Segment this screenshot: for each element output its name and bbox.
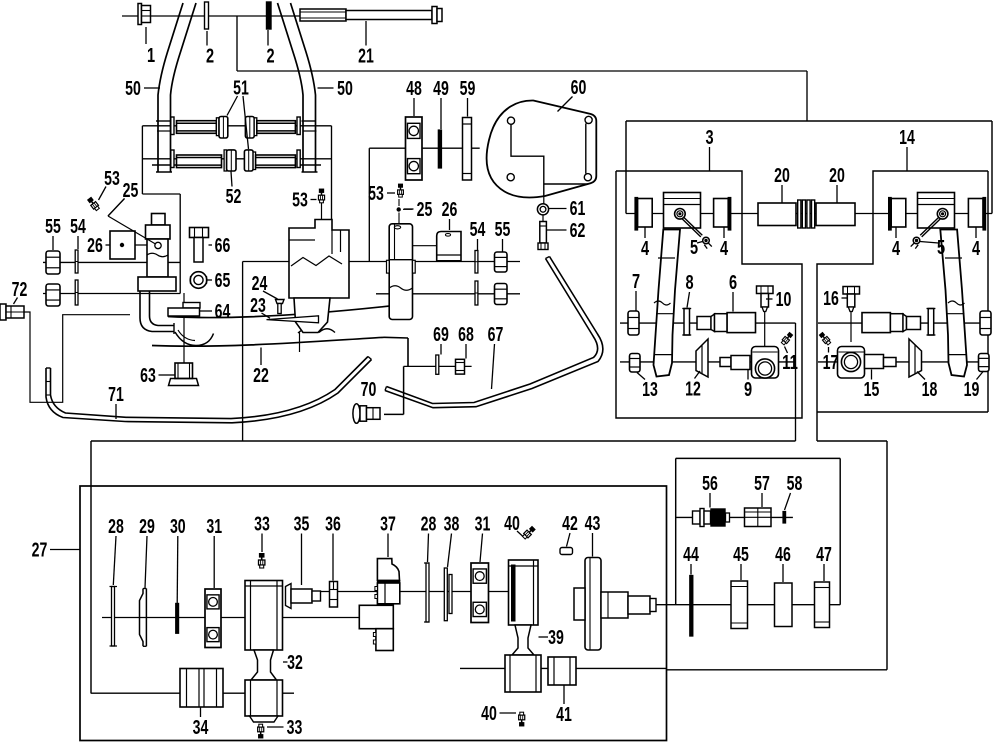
svg-text:37: 37: [380, 514, 396, 536]
svg-text:68: 68: [458, 324, 474, 346]
svg-text:15: 15: [864, 379, 880, 401]
svg-text:58: 58: [787, 473, 803, 495]
svg-text:55: 55: [45, 216, 61, 238]
svg-text:13: 13: [642, 379, 658, 401]
svg-text:61: 61: [570, 198, 586, 220]
svg-text:31: 31: [206, 516, 222, 538]
svg-text:12: 12: [685, 379, 701, 401]
svg-text:67: 67: [488, 324, 504, 346]
svg-text:18: 18: [922, 379, 938, 401]
svg-text:66: 66: [215, 235, 231, 257]
svg-text:53: 53: [292, 190, 308, 212]
svg-text:48: 48: [406, 78, 422, 100]
svg-text:38: 38: [444, 514, 460, 536]
svg-text:26: 26: [87, 235, 103, 257]
svg-text:28: 28: [108, 516, 124, 538]
svg-text:20: 20: [774, 165, 790, 187]
svg-text:33: 33: [254, 514, 270, 536]
svg-text:19: 19: [964, 379, 980, 401]
svg-text:41: 41: [556, 704, 572, 726]
svg-text:3: 3: [705, 127, 713, 149]
svg-text:65: 65: [215, 270, 231, 292]
svg-text:4: 4: [720, 238, 729, 260]
svg-text:5: 5: [937, 237, 945, 259]
svg-text:2: 2: [266, 46, 274, 68]
svg-text:21: 21: [358, 46, 374, 68]
svg-text:51: 51: [233, 78, 249, 100]
svg-text:54: 54: [470, 219, 486, 241]
svg-text:49: 49: [433, 78, 449, 100]
svg-text:42: 42: [562, 513, 578, 535]
svg-text:10: 10: [776, 289, 792, 311]
svg-text:27: 27: [32, 540, 48, 562]
svg-text:40: 40: [481, 703, 497, 725]
svg-text:53: 53: [368, 183, 384, 205]
svg-text:17: 17: [823, 352, 839, 374]
svg-text:29: 29: [139, 516, 155, 538]
svg-text:55: 55: [495, 219, 511, 241]
svg-text:35: 35: [294, 514, 310, 536]
svg-text:43: 43: [585, 513, 601, 535]
svg-text:26: 26: [442, 199, 458, 221]
svg-text:59: 59: [460, 78, 476, 100]
svg-text:33: 33: [287, 717, 303, 739]
svg-text:64: 64: [215, 301, 231, 323]
svg-text:36: 36: [325, 514, 341, 536]
svg-text:25: 25: [123, 180, 139, 202]
svg-text:32: 32: [287, 652, 303, 674]
svg-text:50: 50: [125, 78, 141, 100]
svg-text:14: 14: [899, 127, 915, 149]
svg-text:45: 45: [733, 544, 749, 566]
svg-text:25: 25: [417, 199, 433, 221]
svg-text:34: 34: [193, 717, 209, 739]
svg-text:11: 11: [782, 352, 798, 374]
svg-text:54: 54: [70, 216, 86, 238]
svg-text:22: 22: [253, 365, 269, 387]
svg-text:31: 31: [475, 514, 491, 536]
svg-text:30: 30: [170, 516, 186, 538]
svg-text:16: 16: [823, 288, 839, 310]
svg-text:6: 6: [729, 272, 737, 294]
svg-text:72: 72: [12, 279, 28, 301]
svg-text:69: 69: [433, 324, 449, 346]
svg-text:20: 20: [829, 165, 845, 187]
svg-text:4: 4: [972, 238, 981, 260]
svg-text:2: 2: [206, 46, 214, 68]
svg-text:47: 47: [816, 544, 832, 566]
svg-text:28: 28: [421, 514, 437, 536]
svg-text:5: 5: [690, 237, 698, 259]
svg-text:4: 4: [641, 238, 650, 260]
svg-text:8: 8: [685, 272, 693, 294]
svg-text:56: 56: [702, 473, 718, 495]
svg-text:39: 39: [548, 627, 564, 649]
svg-text:9: 9: [744, 379, 752, 401]
svg-text:52: 52: [226, 186, 242, 208]
svg-text:71: 71: [108, 384, 124, 406]
svg-text:7: 7: [632, 271, 640, 293]
svg-text:44: 44: [683, 544, 699, 566]
svg-text:70: 70: [361, 379, 377, 401]
svg-text:60: 60: [571, 77, 587, 99]
svg-text:63: 63: [140, 365, 156, 387]
svg-text:1: 1: [147, 45, 155, 67]
svg-text:57: 57: [754, 473, 770, 495]
svg-text:62: 62: [570, 220, 586, 242]
svg-text:4: 4: [892, 238, 901, 260]
svg-text:46: 46: [775, 544, 791, 566]
svg-text:50: 50: [337, 78, 353, 100]
